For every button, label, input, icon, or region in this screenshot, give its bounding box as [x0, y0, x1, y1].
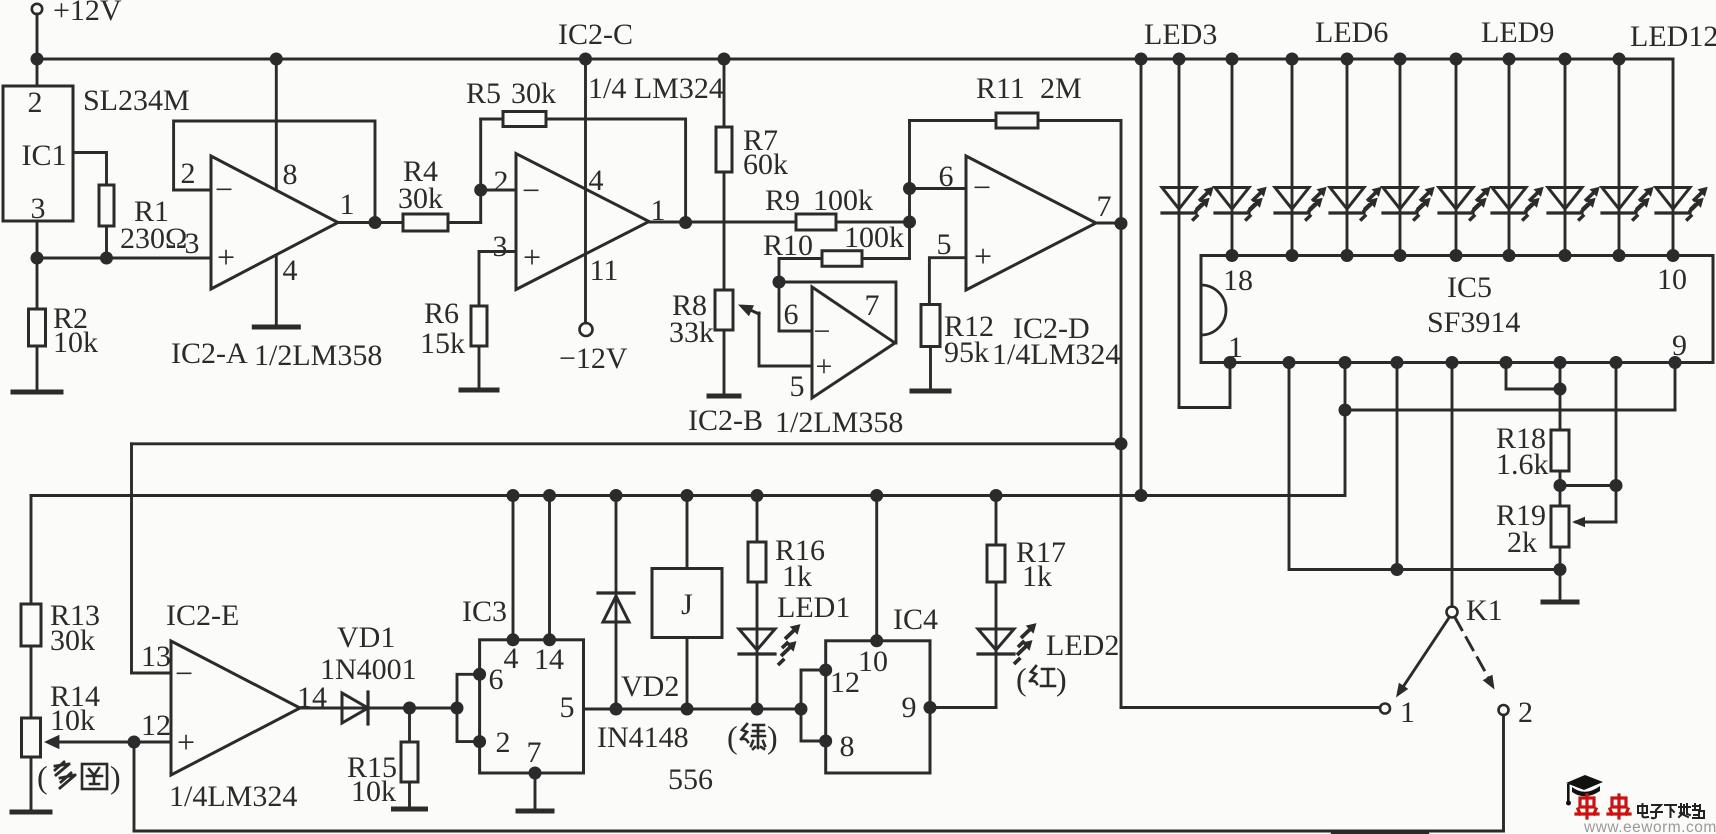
svg-text:1/4LM324: 1/4LM324: [169, 780, 297, 813]
svg-text:4: 4: [589, 164, 604, 197]
svg-text:+: +: [523, 239, 541, 275]
svg-text:K1: K1: [1466, 594, 1503, 627]
svg-text:IC5: IC5: [1447, 271, 1492, 304]
svg-text:10: 10: [1657, 263, 1687, 296]
svg-text:8: 8: [840, 730, 855, 763]
svg-text:IC2-B: IC2-B: [688, 404, 763, 437]
svg-text:): ): [767, 719, 778, 755]
svg-text:+: +: [974, 238, 992, 274]
svg-text:10k: 10k: [53, 326, 98, 359]
svg-text:5: 5: [937, 228, 952, 261]
svg-text:10k: 10k: [50, 704, 95, 737]
svg-text:(: (: [37, 759, 48, 795]
svg-text:−: −: [814, 315, 831, 348]
svg-text:7: 7: [527, 736, 542, 769]
svg-text:2k: 2k: [1507, 526, 1537, 559]
svg-text:−: −: [973, 169, 991, 205]
svg-text:2: 2: [181, 157, 196, 190]
svg-text:30k: 30k: [511, 77, 556, 110]
svg-text:6: 6: [939, 160, 954, 193]
svg-text:IN4148: IN4148: [597, 721, 689, 754]
svg-text:1k: 1k: [782, 560, 812, 593]
svg-text:1: 1: [340, 188, 355, 221]
svg-text:LED2: LED2: [1046, 629, 1119, 662]
svg-text:J: J: [681, 588, 693, 621]
svg-text:IC2-E: IC2-E: [166, 599, 239, 632]
svg-text:+: +: [177, 724, 195, 760]
svg-text:IC2-C: IC2-C: [558, 18, 633, 51]
svg-text:+12V: +12V: [53, 0, 122, 27]
svg-text:R6: R6: [424, 297, 459, 330]
svg-text:10k: 10k: [351, 775, 396, 808]
svg-text:IC3: IC3: [462, 595, 507, 628]
svg-text:100k: 100k: [844, 221, 904, 254]
svg-text:1/2LM358: 1/2LM358: [254, 339, 382, 372]
svg-text:5: 5: [560, 691, 575, 724]
svg-text:13: 13: [141, 640, 171, 673]
svg-text:(: (: [1016, 661, 1027, 697]
svg-text:7: 7: [865, 289, 880, 322]
svg-text:2: 2: [1518, 696, 1533, 729]
svg-text:33k: 33k: [669, 316, 714, 349]
svg-text:2: 2: [494, 165, 509, 198]
svg-text:3: 3: [493, 230, 508, 263]
svg-text:LED12: LED12: [1630, 20, 1716, 53]
svg-text:12: 12: [141, 709, 171, 742]
svg-text:1N4001: 1N4001: [320, 653, 417, 686]
svg-text:R10: R10: [763, 229, 813, 262]
svg-text:−: −: [522, 172, 540, 208]
svg-text:−: −: [175, 655, 193, 691]
svg-text:1: 1: [1400, 696, 1415, 729]
svg-text:1/2LM358: 1/2LM358: [775, 406, 903, 439]
svg-text:IC4: IC4: [893, 603, 938, 636]
svg-text:9: 9: [902, 691, 917, 724]
svg-text:14: 14: [534, 643, 564, 676]
svg-text:8: 8: [283, 158, 298, 191]
svg-text:2M: 2M: [1040, 72, 1082, 105]
svg-text:LED9: LED9: [1481, 16, 1554, 49]
svg-text:2: 2: [496, 726, 511, 759]
svg-text:R9: R9: [765, 184, 800, 217]
svg-text:5: 5: [790, 370, 805, 403]
svg-text:1/4LM324: 1/4LM324: [992, 338, 1120, 371]
svg-text:1.6k: 1.6k: [1496, 448, 1549, 481]
svg-text:VD1: VD1: [337, 621, 395, 654]
svg-text:+: +: [217, 239, 235, 275]
svg-text:100k: 100k: [813, 184, 873, 217]
svg-text:30k: 30k: [50, 624, 95, 657]
svg-text:): ): [110, 759, 121, 795]
svg-text:LED1: LED1: [777, 591, 850, 624]
svg-text:60k: 60k: [743, 148, 788, 181]
svg-text:95k: 95k: [944, 336, 989, 369]
svg-text:556: 556: [668, 763, 713, 796]
svg-text:R5: R5: [466, 77, 501, 110]
svg-text:7: 7: [1097, 190, 1112, 223]
svg-text:10: 10: [858, 645, 888, 678]
svg-text:30k: 30k: [398, 182, 443, 215]
svg-text:www.eeworm.com: www.eeworm.com: [1583, 819, 1716, 834]
svg-text:18: 18: [1223, 264, 1253, 297]
svg-text:3: 3: [185, 227, 200, 260]
svg-text:6: 6: [489, 663, 504, 696]
svg-text:R11: R11: [976, 72, 1025, 105]
svg-text:SF3914: SF3914: [1427, 306, 1520, 339]
svg-text:LED6: LED6: [1315, 16, 1388, 49]
svg-text:+: +: [816, 350, 833, 383]
svg-text:4: 4: [283, 254, 298, 287]
svg-text:−12V: −12V: [559, 342, 628, 375]
svg-text:−: −: [215, 171, 233, 207]
svg-text:VD2: VD2: [621, 670, 679, 703]
svg-text:IC2-A: IC2-A: [171, 337, 248, 370]
svg-text:2: 2: [28, 86, 43, 119]
svg-text:LED3: LED3: [1144, 18, 1217, 51]
svg-text:): ): [1056, 661, 1067, 697]
svg-text:(: (: [727, 719, 738, 755]
svg-text:IC1: IC1: [22, 139, 67, 172]
svg-text:1/4 LM324: 1/4 LM324: [588, 72, 724, 105]
svg-text:12: 12: [830, 666, 860, 699]
svg-text:SL234M: SL234M: [83, 84, 190, 117]
svg-text:1k: 1k: [1022, 560, 1052, 593]
svg-text:4: 4: [504, 642, 519, 675]
svg-text:6: 6: [784, 298, 799, 331]
svg-text:230Ω: 230Ω: [120, 222, 187, 255]
svg-text:15k: 15k: [420, 327, 465, 360]
svg-text:11: 11: [590, 254, 619, 287]
